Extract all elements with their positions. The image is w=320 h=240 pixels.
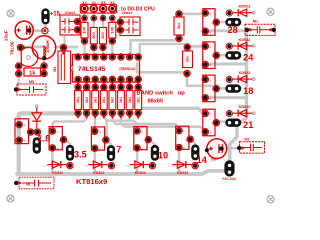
resistor 3k1 #3 (92, 91, 99, 110)
svg-text:10uF: 10uF (210, 157, 217, 161)
wire band 14 collector stub (190, 139, 195, 143)
resistor 100 #4 (109, 22, 116, 38)
svg-text:(555ID10): (555ID10) (119, 67, 136, 71)
svg-text:3k1: 3k1 (102, 97, 106, 103)
svg-text:X4: X4 (110, 1, 114, 5)
pad 3k1 top #8 (136, 82, 140, 85)
svg-text:KD522: KD522 (135, 171, 146, 175)
transistor VT2 KT816 (3.5 MHz) (49, 127, 62, 150)
transistor VT1 KT816 (1.8 MHz) (15, 119, 29, 144)
wire to band 3.5 (52, 113, 86, 131)
pad U1 pin 10 bottom (127, 76, 133, 82)
pad 10uF left (205, 148, 209, 152)
svg-text:M1: M1 (53, 66, 57, 71)
pad U1 pin 15 bottom (84, 76, 90, 82)
pad 3k1 top #6 (119, 82, 123, 85)
wire to band 21 bottom (121, 113, 204, 130)
mounting hole bottom-left (7, 195, 14, 202)
svg-text:88x65: 88x65 (148, 98, 164, 104)
svg-text:M5: M5 (29, 80, 34, 84)
pad U1 pin 5 top (109, 54, 115, 60)
connector output 14 MHz (191, 144, 199, 160)
wire band 28 collector stub (217, 21, 227, 23)
pad 3k1 bottom #5 (109, 110, 115, 116)
resistor 3k1 #5 (109, 91, 116, 110)
connector output 28 MHz (225, 18, 241, 26)
wire X3 column (102, 10, 104, 55)
capacitor C2 10uF electrolytic (207, 139, 227, 159)
wire +15 oval to pad (44, 22, 46, 28)
wire IC to R10 3k1 bottom (137, 63, 187, 72)
wire band 21 collector stub (217, 120, 227, 122)
svg-text:KD522: KD522 (177, 171, 188, 175)
svg-text:3k1: 3k1 (186, 56, 190, 62)
svg-text:1k: 1k (29, 71, 36, 77)
pad 3k1 bottom #2 (84, 110, 90, 116)
wire R10 bottom to band 18 (187, 74, 217, 89)
pad +15 via (42, 28, 48, 34)
pad X1 (81, 5, 88, 12)
pad U1 pin 13 bottom (101, 76, 107, 82)
svg-text:1.8: 1.8 (37, 133, 50, 143)
pad U1 pin 2 top (84, 54, 90, 60)
svg-text:22nx2: 22nx2 (122, 11, 133, 15)
pad 3k1 bottom #4 (101, 110, 107, 116)
pad U1 pin 11 bottom (118, 76, 124, 82)
svg-text:100uH: 100uH (45, 40, 50, 53)
pad 3k1 bottom #1 (75, 110, 81, 116)
svg-text:M1: M1 (26, 182, 31, 186)
svg-text:M1: M1 (253, 20, 258, 24)
pad U1 pin 16 bottom (75, 76, 81, 82)
pads 22nx2 left (74, 18, 80, 24)
wire band 7 collector (105, 122, 107, 138)
svg-text:22nx2: 22nx2 (65, 11, 76, 15)
pad U1 pin 14 bottom (92, 76, 98, 82)
wire X4 column (111, 10, 113, 55)
wire 22n block to M1 cap (63, 36, 65, 46)
wire band 14 emitter to rail (178, 148, 181, 175)
resistor 3k1 #1 (75, 91, 82, 110)
connector output 7 MHz (107, 145, 115, 161)
resistor 3k1 #4 (100, 91, 107, 110)
connector output 24 MHz (225, 51, 241, 59)
pad X4 (109, 5, 116, 12)
resistor R10 3k1 (183, 51, 193, 68)
svg-text:3k1: 3k1 (76, 97, 80, 103)
resistor 100 #2 (90, 28, 97, 44)
diode VD1 KD522 vertical (35, 105, 38, 108)
svg-text:18: 18 (243, 86, 253, 96)
transistor VT4 KT816 (10 MHz) (134, 127, 147, 150)
mounting hole top-right (267, 8, 274, 15)
svg-text:28: 28 (227, 25, 237, 35)
connector output 3.5 MHz (66, 145, 74, 161)
wire band 3.5 emitter to rail (51, 148, 54, 174)
wire left pads column down to M5 (16, 64, 19, 90)
transistor VT6 KT816 (28 MHz) (203, 9, 215, 36)
wire right supply rail (230, 30, 247, 161)
svg-text:KD522: KD522 (239, 5, 251, 9)
svg-text:M1: M1 (244, 138, 249, 142)
svg-text:KD522: KD522 (239, 105, 251, 109)
capacitor M1 top right (245, 24, 275, 35)
wire bottom supply rail (17, 171, 225, 174)
svg-text:X1: X1 (82, 1, 86, 5)
svg-text:3k1: 3k1 (128, 97, 132, 103)
wire 10uF to M1 pad (226, 147, 239, 149)
connector X1-X4 (80, 4, 116, 13)
wire stub pin8 (137, 113, 139, 118)
svg-text:10: 10 (158, 150, 168, 160)
svg-text:3k1: 3k1 (177, 23, 181, 29)
wire 22nx2 right stubs (112, 22, 119, 30)
svg-text:100: 100 (91, 32, 96, 39)
resistor 100 #1 (81, 22, 88, 38)
pad M5 left (14, 87, 18, 91)
svg-text:3k1: 3k1 (119, 97, 123, 103)
wire band 3.5 collector stub (64, 139, 70, 143)
transistor VT7 KT816 (24 MHz) (203, 42, 215, 69)
svg-text:100: 100 (110, 26, 115, 33)
pads under outer resistors (81, 38, 87, 44)
svg-text:3k1: 3k1 (93, 97, 97, 103)
capacitor block 22nx2 left (60, 15, 80, 35)
wire band 18 collector stub (217, 87, 227, 89)
svg-text:BAND switch up: BAND switch up (137, 90, 186, 96)
pad row left of 1k (16, 63, 22, 69)
pad row 2 (82, 15, 88, 21)
capacitor M1 vertical (58, 51, 71, 84)
capacitor M1 bottom left (19, 177, 54, 189)
wire band 18 emitter (206, 96, 246, 99)
resistor 100 #3 (100, 28, 107, 44)
pad 3k1 top #4 (102, 82, 106, 85)
pad 3k1 bottom #6 (118, 110, 124, 116)
capacitor C1 15uF electrolytic (15, 21, 33, 39)
wire stub pin7 (128, 113, 130, 119)
pad 3k1 top #2 (85, 82, 89, 85)
wire R9 3k1 bottom to IC (131, 40, 179, 55)
transistor U2 78L05 outline (21, 47, 38, 66)
svg-text:15uF: 15uF (4, 30, 9, 41)
svg-text:KD522: KD522 (93, 171, 104, 175)
wire 100uH bottom to 1k pads (43, 59, 45, 74)
svg-text:24: 24 (243, 53, 254, 63)
wire band 7 emitter to rail (93, 148, 96, 174)
pad 3k1 top #5 (111, 82, 115, 85)
connector output 10 MHz (151, 145, 159, 161)
wire IC pin stubs to resistor row (78, 79, 138, 86)
wire X1 column (83, 10, 85, 55)
inductor L1 100uH (32, 36, 55, 59)
wire R10 3k1 top to IC (140, 44, 188, 55)
svg-text:100: 100 (100, 32, 105, 39)
svg-text:100: 100 (82, 26, 87, 33)
capacitor block 22nx2 right (120, 17, 140, 36)
svg-text:21: 21 (243, 120, 253, 130)
wire 15uF cap to +15 pad (29, 29, 45, 32)
svg-text:KD522: KD522 (239, 71, 251, 75)
wire X2 column (93, 10, 95, 55)
wire band 28 emitter (206, 29, 246, 32)
pad 3k1 top #7 (128, 82, 132, 85)
pad U1 pin 9 bottom (135, 76, 141, 82)
wire pad to 100uH (22, 45, 44, 48)
connector output 1.8 MHz (33, 137, 41, 154)
svg-text:+22-24v: +22-24v (222, 177, 237, 181)
wire band 24 emitter (206, 63, 246, 66)
pad U1 pin 8 top (135, 54, 141, 60)
pad 3k1 top #1 (76, 82, 80, 85)
svg-text:X2: X2 (92, 1, 96, 5)
pad U1 pin 1 top (75, 54, 81, 60)
pad U1 pin 6 top (118, 54, 124, 60)
resistor 3k1 #6 (118, 91, 125, 110)
mounting hole bottom-right (267, 196, 274, 203)
svg-text:KD522: KD522 (239, 38, 251, 42)
svg-text:7: 7 (116, 145, 121, 155)
capacitor M1 bottom right (240, 142, 265, 153)
pad U1 pin 3 top (92, 54, 98, 60)
transistor VT9 KT816 (21 MHz) (203, 109, 215, 136)
wire band 10 collector stub (149, 140, 155, 145)
svg-text:14: 14 (197, 155, 208, 165)
svg-text:3k1: 3k1 (111, 97, 115, 103)
resistor 3k1 #7 (126, 91, 133, 110)
svg-text:3k1: 3k1 (85, 97, 89, 103)
wire band 10 emitter to rail (136, 148, 139, 174)
wire 22nx2 left stubs (79, 22, 85, 30)
wire band 1.8 supply rail (19, 113, 78, 174)
connector output 18 MHz (225, 84, 241, 92)
pad 3k1 bottom #8 (135, 110, 141, 116)
op IC U1 74LS145 (73, 55, 140, 83)
pad regulator input (17, 44, 23, 50)
wire band 24 collector stub (217, 54, 227, 56)
pad M1 top (60, 44, 66, 50)
pad U1 pin 12 bottom (109, 76, 115, 82)
connector +22-24v (224, 160, 234, 176)
pads under inner resistors (91, 44, 97, 50)
wire R10 3k1 to band 24 (189, 45, 202, 48)
pads 22nx2 right (117, 19, 123, 25)
pads VD1 cathode (28, 129, 34, 135)
svg-text:KD522: KD522 (52, 171, 63, 175)
wire to band 14 (112, 113, 179, 131)
svg-text:3k1: 3k1 (136, 97, 140, 103)
svg-text:X3: X3 (101, 1, 105, 5)
connector +15 power oval (41, 8, 49, 24)
pad X3 (100, 5, 107, 12)
wire R9 3k1 top to band 28 (179, 12, 202, 15)
pad M1 bottom left (14, 181, 18, 185)
transistor VT8 KT816 (18 MHz) (203, 75, 215, 102)
svg-text:+15: +15 (50, 11, 61, 18)
pad U1 pin 7 top (127, 54, 133, 60)
wire 100uH to C-M1 top pad (56, 46, 78, 49)
pads right of 1k (41, 63, 47, 69)
pad 3k1 bottom #3 (92, 110, 98, 116)
svg-text:3.5: 3.5 (74, 150, 87, 160)
resistor R9 3k1 (174, 17, 184, 35)
svg-text:74LS145: 74LS145 (78, 66, 106, 73)
connector output 21 MHz (225, 119, 241, 127)
mounting hole top-left (7, 10, 14, 17)
svg-text:KT816x9: KT816x9 (76, 177, 107, 186)
capacitor M5 (17, 84, 46, 95)
resistor 3k1 #2 (83, 91, 90, 110)
resistor 3k1 #8 (135, 91, 142, 110)
transistor VT5 KT816 (14 MHz) (176, 126, 189, 149)
pad U1 pin 4 top (101, 54, 107, 60)
wire bus to band 21 (141, 98, 204, 114)
transistor VT3 KT816 (7 MHz) (91, 127, 104, 150)
wire to band 7 (94, 113, 96, 131)
pad X2 (90, 5, 97, 12)
wire band 7 collector stub (106, 140, 111, 144)
svg-text:78L05: 78L05 (10, 41, 16, 55)
resistor 1k (24, 68, 41, 76)
pad 3k1 bottom #7 (127, 110, 133, 116)
pad 100uH bottom (42, 56, 46, 60)
pad 3k1 top #3 (93, 82, 97, 85)
wire to band 10 (104, 113, 137, 131)
